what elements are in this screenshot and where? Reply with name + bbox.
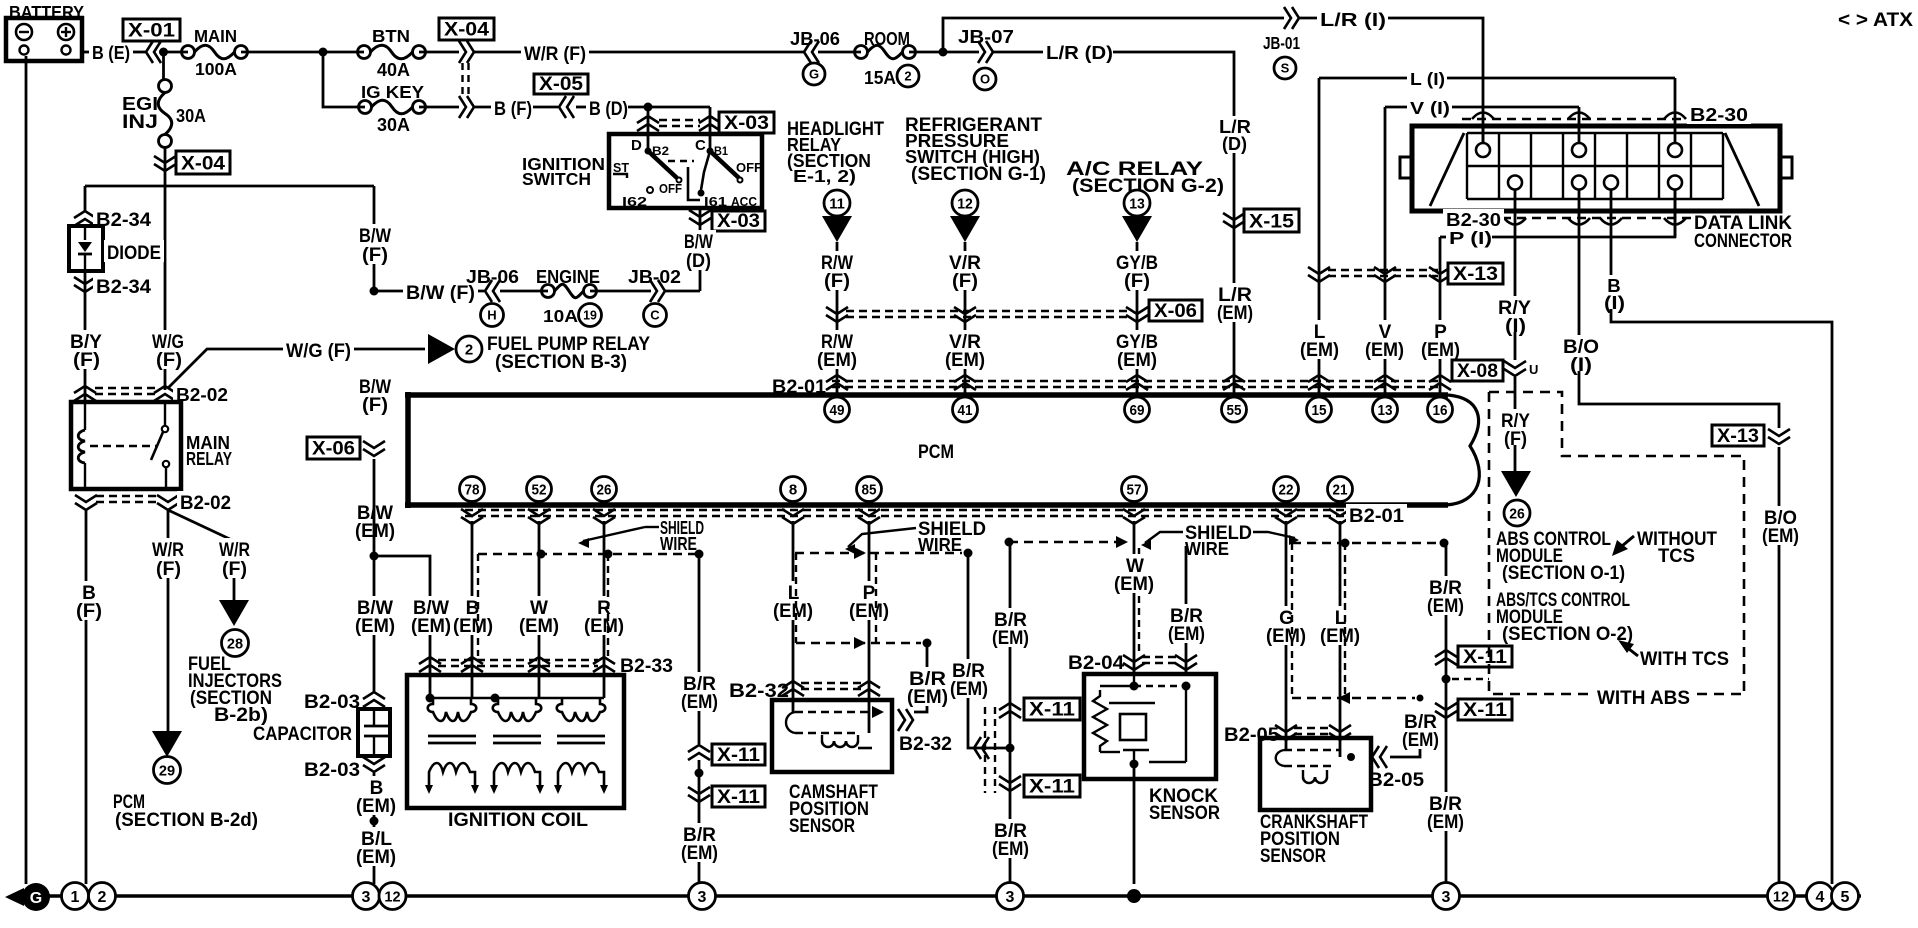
svg-text:1: 1	[71, 889, 80, 906]
svg-text:55: 55	[1227, 402, 1242, 419]
battery	[6, 18, 82, 61]
svg-text:8: 8	[789, 481, 797, 498]
connector B2-02 (top)	[74, 386, 96, 393]
svg-text:B2-05: B2-05	[1224, 725, 1279, 746]
svg-text:(EM): (EM)	[356, 796, 396, 817]
svg-text:(F): (F)	[1124, 271, 1150, 292]
svg-text:(F): (F)	[76, 601, 102, 622]
svg-text:X-13: X-13	[1717, 426, 1759, 447]
wire B(EM) / B/L(EM) to ground bus	[373, 773, 376, 884]
svg-text:(EM): (EM)	[519, 616, 559, 637]
svg-text:B2-34: B2-34	[96, 277, 151, 298]
svg-text:(EM): (EM)	[992, 628, 1029, 649]
camshaft position sensor box	[772, 700, 892, 772]
wire R/Y(I) from DLC to X-08	[1514, 237, 1517, 299]
svg-text:(F): (F)	[362, 245, 388, 266]
wire coil shield drain to bus	[698, 760, 701, 883]
svg-text:B2-03: B2-03	[304, 760, 360, 781]
main relay switch	[164, 402, 166, 425]
wire B(F) to ground bus	[85, 510, 88, 884]
wire B/W(F) down through X-06	[356, 375, 394, 396]
wire B/R(EM) shield drain camshaft	[914, 643, 927, 712]
svg-text:26: 26	[1509, 505, 1525, 522]
svg-text:B (D): B (D)	[589, 99, 628, 120]
svg-text:B-2b): B-2b)	[214, 705, 268, 726]
junction node (L/R(I) branch up)	[939, 48, 948, 57]
svg-text:S: S	[1281, 61, 1290, 76]
svg-text:C: C	[650, 308, 660, 323]
svg-text:X-06: X-06	[1154, 301, 1197, 322]
ignition coil primary bus	[430, 697, 604, 699]
svg-text:2: 2	[904, 69, 911, 84]
svg-text:(D): (D)	[1222, 133, 1247, 154]
bus terminal 3 (capacitor)	[353, 883, 380, 910]
wire W(EM) from PCM pin 57	[1133, 521, 1136, 674]
wire P(EM) from PCM pin 85	[868, 521, 871, 733]
connector B2-02 (bottom)	[75, 495, 97, 502]
svg-text:WIRE: WIRE	[660, 533, 697, 554]
svg-text:SENSOR: SENSOR	[1260, 846, 1326, 867]
PCM box	[405, 392, 1448, 398]
svg-text:X-13: X-13	[1453, 264, 1498, 285]
svg-text:41: 41	[958, 402, 973, 419]
svg-text:78: 78	[465, 481, 480, 498]
wire W/G down to main relay	[164, 186, 167, 390]
svg-text:B2-30: B2-30	[1446, 209, 1501, 230]
wire L(EM) from PCM pin 8	[792, 521, 795, 712]
fuse ENGINE 10A	[542, 285, 555, 298]
wire L to PCM pin 15	[1318, 78, 1321, 395]
svg-text:B2-30: B2-30	[1690, 104, 1748, 125]
svg-text:57: 57	[1127, 481, 1142, 498]
svg-text:(EM): (EM)	[1762, 526, 1799, 547]
connector X-01	[123, 19, 180, 41]
terminal arrow 2 fuel pump relay	[428, 334, 455, 364]
wire B(I) to ground bus	[1598, 275, 1630, 295]
wire V(I)	[1385, 106, 1408, 109]
svg-text:B2-04: B2-04	[1068, 653, 1124, 674]
svg-text:L/R (I): L/R (I)	[1320, 9, 1386, 30]
dashed link to ABS box	[1452, 678, 1489, 680]
wire BTN to X-04	[419, 51, 459, 54]
svg-text:OFF: OFF	[736, 160, 762, 175]
svg-text:B (E): B (E)	[92, 42, 130, 63]
junction node B/W split	[370, 552, 379, 561]
svg-text:10A: 10A	[543, 306, 578, 326]
svg-text:(SECTION G-1): (SECTION G-1)	[911, 164, 1046, 185]
svg-text:100A: 100A	[195, 59, 237, 79]
ground symbol G	[5, 888, 24, 906]
connector X-11 (pair on camshaft drain)	[999, 703, 1021, 710]
svg-text:X-11: X-11	[1463, 647, 1507, 668]
svg-text:13: 13	[1378, 402, 1393, 419]
connector X-11 (pair on crankshaft drain)	[1435, 650, 1457, 657]
svg-text:B/W (F): B/W (F)	[406, 283, 475, 304]
svg-text:CONNECTOR: CONNECTOR	[1694, 231, 1792, 252]
svg-text:I61: I61	[704, 194, 727, 209]
svg-text:L (I): L (I)	[1410, 69, 1445, 89]
wire B(D) to ignition switch	[576, 106, 590, 109]
svg-text:85: 85	[862, 481, 877, 498]
svg-text:69: 69	[1130, 402, 1145, 419]
svg-text:(EM): (EM)	[1266, 626, 1306, 647]
wire B/R(EM) coil shield drain	[698, 554, 701, 744]
crankshaft position sensor box	[1260, 738, 1371, 810]
svg-text:3: 3	[1006, 889, 1015, 906]
wire to ROOM fuse	[818, 51, 861, 54]
wire W/R(F) to PCM terminal 29	[167, 510, 170, 732]
shield wire dashed (camshaft)	[795, 552, 962, 554]
main relay box	[71, 402, 181, 489]
bus junction knock	[1127, 889, 1141, 903]
svg-text:< > ATX: < > ATX	[1838, 10, 1913, 31]
svg-text:(EM): (EM)	[453, 616, 493, 637]
svg-text:12: 12	[384, 888, 400, 905]
svg-text:(EM): (EM)	[1427, 812, 1464, 833]
svg-text:SENSOR: SENSOR	[1149, 803, 1220, 824]
wire branch horizontal to diode and B/W	[85, 185, 374, 188]
DLC pin wires	[1482, 126, 1485, 143]
junction block JB-02 (pin C)	[590, 290, 651, 293]
terminal 12 refrigerant pressure switch	[952, 190, 978, 216]
svg-text:B2-03: B2-03	[304, 692, 360, 713]
svg-text:(EM): (EM)	[1402, 730, 1439, 751]
svg-text:E-1, 2): E-1, 2)	[793, 166, 856, 186]
connector X-13 (wires to PCM)	[1328, 269, 1438, 271]
wire MAIN fuse to BTN fuse	[241, 51, 364, 54]
svg-text:3: 3	[698, 889, 707, 906]
svg-text:(F): (F)	[362, 395, 388, 416]
svg-text:IGNITION COIL: IGNITION COIL	[448, 810, 588, 831]
svg-text:X-01: X-01	[128, 21, 175, 42]
svg-text:PCM: PCM	[918, 442, 954, 463]
terminal arrow 26 ABS	[1501, 471, 1531, 497]
svg-text:B (F): B (F)	[494, 99, 532, 120]
svg-text:ENGINE: ENGINE	[536, 266, 600, 287]
bus terminal 3 (coil shield)	[689, 883, 716, 910]
svg-text:(F): (F)	[156, 350, 182, 371]
svg-text:29: 29	[159, 762, 175, 779]
svg-text:CAPACITOR: CAPACITOR	[253, 724, 352, 745]
svg-text:X-03: X-03	[724, 113, 769, 134]
svg-text:21: 21	[1333, 481, 1348, 498]
svg-text:(EM): (EM)	[773, 601, 813, 622]
svg-text:B2-02: B2-02	[180, 493, 231, 514]
svg-text:X-15: X-15	[1249, 211, 1294, 232]
svg-text:(EM): (EM)	[356, 847, 396, 868]
svg-text:(F): (F)	[824, 271, 850, 292]
wire P(I)	[1440, 236, 1448, 239]
connector X-06 (left)	[307, 437, 360, 459]
wire EGI branch	[162, 52, 165, 80]
svg-text:BATTERY: BATTERY	[9, 2, 84, 22]
svg-text:B2-01: B2-01	[1349, 506, 1404, 527]
svg-text:C: C	[695, 137, 706, 154]
ground bus line	[22, 894, 1861, 897]
svg-text:ACC: ACC	[731, 194, 758, 209]
data link connector box	[1412, 126, 1780, 211]
svg-text:26: 26	[597, 481, 612, 498]
svg-text:(EM): (EM)	[584, 616, 624, 637]
svg-text:X-04: X-04	[181, 153, 225, 174]
junction node X-11 splice	[1006, 744, 1015, 753]
svg-text:JB-06: JB-06	[466, 266, 519, 287]
fuse EGI INJ 30A	[159, 80, 172, 93]
svg-text:WIRE: WIRE	[918, 534, 962, 555]
connector B2-30 (bottom)	[1502, 217, 1697, 219]
junction node (EGI branch)	[159, 48, 168, 57]
svg-text:JB-01: JB-01	[1263, 33, 1300, 53]
svg-text:I62: I62	[622, 194, 647, 209]
wire battery negative to ground bus	[25, 56, 28, 884]
wire P to PCM pin 16	[1439, 237, 1442, 395]
ignition coil transformers	[428, 698, 477, 721]
svg-text:JB-07: JB-07	[958, 26, 1014, 47]
wire R/Y(F) to ABS terminal 26	[1514, 377, 1517, 412]
connector B2-34 (bottom)	[74, 277, 96, 284]
svg-text:MAIN: MAIN	[194, 26, 237, 46]
wire B/Y(F) to main relay	[84, 271, 87, 402]
wire R(EM) from PCM pin 26	[603, 521, 606, 698]
svg-text:U: U	[1529, 362, 1538, 377]
svg-text:5: 5	[1841, 889, 1850, 906]
svg-text:B2-05: B2-05	[1368, 770, 1424, 791]
wire B(EM) from PCM pin 78	[471, 521, 474, 698]
svg-text:12: 12	[1773, 888, 1789, 905]
connector B2-01 (PCM bottom)	[465, 509, 1346, 511]
svg-text:WIRE: WIRE	[1185, 538, 1229, 559]
svg-text:X-11: X-11	[1463, 700, 1507, 721]
svg-text:(EM): (EM)	[1421, 340, 1460, 361]
svg-text:(SECTION O-1): (SECTION O-1)	[1502, 563, 1625, 584]
svg-text:X-11: X-11	[1029, 777, 1075, 798]
connector B2-34 (top)	[74, 211, 96, 218]
svg-text:(I): (I)	[1570, 355, 1592, 376]
wire L/R(D) down to PCM pin 55	[1113, 52, 1234, 395]
ignition switch box	[609, 134, 762, 208]
svg-text:11: 11	[829, 195, 845, 212]
svg-text:4: 4	[1816, 889, 1825, 906]
svg-text:WITH TCS: WITH TCS	[1640, 649, 1729, 670]
svg-text:(F): (F)	[73, 350, 100, 371]
svg-text:EGI: EGI	[122, 93, 158, 114]
ignition coil box	[407, 675, 624, 808]
svg-text:13: 13	[1129, 195, 1145, 212]
svg-text:12: 12	[957, 195, 973, 212]
svg-text:JB-02: JB-02	[628, 266, 681, 287]
bus terminal 3 (crankshaft)	[1433, 883, 1460, 910]
knock sensor internals	[1133, 674, 1135, 686]
svg-text:3: 3	[1442, 889, 1451, 906]
svg-text:D: D	[631, 137, 642, 154]
fuse ROOM 15A	[855, 46, 868, 59]
wire L/R(I) top line to DLC	[943, 18, 1284, 52]
knock sensor box	[1084, 674, 1216, 779]
svg-text:15A: 15A	[864, 67, 896, 88]
svg-text:2: 2	[465, 341, 473, 358]
svg-text:30A: 30A	[377, 114, 410, 135]
terminal 13 A/C relay	[1124, 190, 1150, 216]
svg-text:(EM): (EM)	[945, 350, 985, 371]
wire B/R(EM) knock return	[1185, 546, 1188, 674]
svg-text:49: 49	[830, 402, 845, 419]
wire B/W(F) down to engine fuse row	[356, 224, 394, 245]
wire B/R(EM) crankshaft drain	[1445, 543, 1448, 884]
wire W(EM) from PCM pin 52	[538, 521, 541, 698]
svg-text:SWITCH: SWITCH	[522, 169, 591, 189]
svg-text:3: 3	[362, 889, 371, 906]
wire V/R to PCM pin 41	[964, 242, 967, 395]
svg-text:2: 2	[98, 889, 107, 906]
svg-text:O: O	[980, 72, 990, 87]
capacitor	[358, 709, 390, 756]
svg-text:22: 22	[1279, 481, 1294, 498]
svg-text:W/G (F): W/G (F)	[286, 341, 351, 362]
PCM bottom pins	[460, 477, 485, 502]
svg-text:TCS: TCS	[1658, 546, 1695, 567]
svg-text:SENSOR: SENSOR	[789, 816, 855, 837]
connector X-08	[1452, 360, 1503, 381]
junction node (IG KEY branch)	[319, 48, 328, 57]
connector X-13 (right)	[1712, 425, 1764, 446]
shield wire dashed (crankshaft)	[1292, 542, 1438, 544]
svg-text:(EM): (EM)	[1117, 350, 1157, 371]
svg-text:DIODE: DIODE	[107, 243, 161, 264]
wire GY/B to PCM pin 69	[1136, 242, 1139, 395]
svg-text:(EM): (EM)	[907, 687, 948, 708]
connector X-04 (top)	[439, 18, 494, 40]
ABS dashed outline	[1489, 392, 1744, 694]
connector B2-01 (PCM top)	[769, 375, 829, 396]
svg-text:B2-33: B2-33	[620, 656, 673, 677]
svg-text:(EM): (EM)	[1320, 626, 1360, 647]
svg-text:WITH ABS: WITH ABS	[1597, 688, 1690, 709]
bus terminal 2	[89, 883, 116, 910]
svg-text:(I): (I)	[1604, 292, 1625, 313]
bus terminal 3 (camshaft)	[997, 883, 1024, 910]
svg-text:X-04: X-04	[444, 20, 489, 41]
svg-text:(EM): (EM)	[681, 692, 718, 713]
svg-text:(F): (F)	[952, 271, 978, 292]
svg-text:(EM): (EM)	[1365, 340, 1404, 361]
fuse IG KEY 30A	[359, 101, 372, 114]
wire W/R(F) to fuel injectors terminal 28	[168, 510, 234, 601]
connector X-05	[534, 74, 588, 94]
bus terminal 1	[62, 883, 89, 910]
connector X-06 (right)	[846, 310, 1128, 312]
svg-text:52: 52	[532, 481, 547, 498]
PCM top pins	[825, 397, 850, 422]
bus terminal 4	[1807, 883, 1834, 910]
svg-text:(EM): (EM)	[1168, 624, 1205, 645]
svg-text:X-05: X-05	[539, 74, 583, 95]
svg-text:16: 16	[1433, 402, 1448, 419]
svg-text:40A: 40A	[377, 59, 410, 80]
connector B2-05 (shield exit)	[1372, 746, 1379, 768]
bus terminal 12 (B/O)	[1768, 883, 1795, 910]
svg-text:B2-02: B2-02	[176, 384, 228, 405]
shield wire dashed (knock)	[1009, 541, 1124, 543]
diode	[69, 226, 103, 271]
svg-text:W/R (F): W/R (F)	[524, 44, 586, 65]
svg-text:IG KEY: IG KEY	[361, 82, 424, 102]
wire B(F)	[474, 106, 496, 109]
svg-text:(SECTION O-2): (SECTION O-2)	[1502, 624, 1633, 645]
svg-text:(EM): (EM)	[1427, 596, 1464, 617]
svg-text:(F): (F)	[222, 559, 247, 580]
svg-text:(EM): (EM)	[849, 601, 889, 622]
shield wire dashed (ignition coil)	[478, 553, 699, 555]
svg-text:19: 19	[583, 308, 597, 323]
wire G(EM) from PCM pin 22	[1285, 521, 1288, 750]
fuse BTN 40A	[358, 46, 371, 59]
terminal 11 headlight relay	[824, 190, 850, 216]
svg-text:L/R (D): L/R (D)	[1046, 42, 1113, 63]
svg-text:15: 15	[1312, 402, 1327, 419]
junction node B/W(F)	[370, 287, 379, 296]
bus terminal 12 (capacitor)	[379, 883, 406, 910]
wire L(I)	[1319, 77, 1408, 80]
svg-text:(EM): (EM)	[355, 616, 395, 637]
svg-text:(D): (D)	[686, 251, 711, 272]
terminal arrow 29 PCM	[152, 731, 182, 757]
terminal arrow 28 fuel injectors	[219, 600, 249, 626]
svg-text:(EM): (EM)	[411, 616, 451, 637]
junction node at ignition switch D branch	[644, 103, 653, 112]
svg-text:H: H	[487, 308, 496, 323]
svg-text:28: 28	[227, 635, 243, 652]
wire battery B(E) to X-01	[82, 51, 92, 54]
connector B2-30 (top)	[1462, 118, 1697, 120]
svg-text:(EM): (EM)	[1300, 340, 1339, 361]
wire B/O(I) to X-13 and ground bus	[1560, 335, 1602, 356]
connector X-03 (bottom of ignition switch)	[699, 208, 702, 291]
svg-text:(EM): (EM)	[1114, 574, 1154, 595]
svg-text:INJ: INJ	[122, 112, 158, 133]
svg-text:(SECTION B-3): (SECTION B-3)	[495, 352, 627, 373]
svg-text:X-08: X-08	[1457, 361, 1498, 382]
svg-text:30A: 30A	[176, 105, 206, 126]
svg-text:X-11: X-11	[1029, 700, 1075, 721]
connector B2-32 (shield exit)	[898, 709, 905, 731]
wire W/G(F) to fuel pump relay	[168, 349, 425, 388]
bus terminal 5	[1832, 883, 1859, 910]
svg-text:ST: ST	[613, 160, 629, 175]
wire L(EM) from PCM pin 21	[1339, 521, 1342, 757]
connector X-15	[1244, 209, 1299, 232]
svg-text:(F): (F)	[156, 559, 181, 580]
svg-text:BTN: BTN	[372, 26, 410, 46]
svg-text:V (I): V (I)	[1410, 98, 1450, 118]
svg-text:(SECTION B-2d): (SECTION B-2d)	[115, 810, 258, 831]
svg-text:G: G	[30, 890, 42, 907]
connector X-04 (IG KEY row)	[419, 106, 459, 109]
svg-text:(EM): (EM)	[681, 843, 718, 864]
connector X-03 (top, into ignition switch)	[637, 116, 659, 123]
wire to JB-06 (H)	[374, 290, 484, 293]
fuse MAIN 100A	[182, 46, 195, 59]
wire ROOM to JB-07 and L/R(D) corner	[909, 51, 979, 54]
svg-text:RELAY: RELAY	[186, 448, 232, 469]
DLC trapezoid and grid	[1430, 133, 1464, 206]
wire B/W(EM) from X-06 down	[373, 459, 376, 556]
DLC pins	[1476, 143, 1490, 157]
svg-text:X-06: X-06	[312, 439, 355, 460]
main relay coil	[84, 402, 86, 430]
svg-text:(EM): (EM)	[950, 679, 988, 700]
svg-text:(EM): (EM)	[817, 350, 857, 371]
wire JB-02 up to ignition switch X-03	[665, 290, 700, 293]
